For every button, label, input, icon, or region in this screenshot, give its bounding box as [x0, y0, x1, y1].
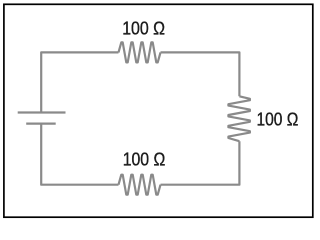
- svg-text:100 Ω: 100 Ω: [257, 109, 299, 129]
- battery V1 negative (short) plate: [26, 122, 56, 124]
- wire: R2 down to bottom-right corner and left to R3: [161, 141, 240, 185]
- svg-text:100 Ω: 100 Ω: [122, 19, 165, 39]
- svg-text:100 Ω: 100 Ω: [123, 149, 166, 169]
- wire: R1 right to top-right corner and down to R2: [161, 52, 240, 96]
- resistor R3 (bottom, 100 ohm): [119, 175, 161, 195]
- resistor R1 (top, 100 ohm): [119, 42, 161, 62]
- resistor R2 (right side, 100 ohm): [228, 96, 250, 141]
- wire: R3 left to bottom-left corner and up to battery - terminal: [41, 124, 118, 185]
- wire: battery + terminal up to top-left corner and right to R1: [41, 52, 118, 112]
- battery V1 positive (long) plate: [18, 111, 66, 113]
